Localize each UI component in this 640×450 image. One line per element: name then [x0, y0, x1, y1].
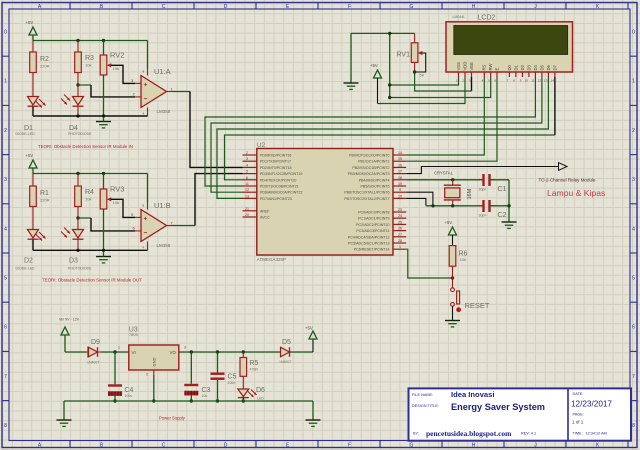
svg-text:PB5/SCK/PCINT5: PB5/SCK/PCINT5 — [361, 185, 390, 189]
svg-text:2: 2 — [4, 128, 7, 134]
svg-text:Power Supply: Power Supply — [159, 416, 186, 421]
svg-text:PC3/ADC3/PCINT11: PC3/ADC3/PCINT11 — [356, 229, 389, 233]
svg-text:LED: LED — [257, 397, 264, 401]
svg-text:VEE: VEE — [469, 62, 474, 71]
svg-text:G: G — [410, 4, 414, 10]
svg-text:RV2: RV2 — [110, 51, 124, 60]
svg-text:PB1/OC1A/PCINT1: PB1/OC1A/PCINT1 — [358, 160, 389, 164]
svg-text:D5: D5 — [282, 339, 291, 346]
svg-text:3: 3 — [184, 346, 186, 350]
svg-text:DESIGN TITLE:: DESIGN TITLE: — [412, 404, 439, 408]
svg-text:14: 14 — [398, 151, 402, 155]
svg-text:pencetusidea.blogspot.com: pencetusidea.blogspot.com — [426, 429, 512, 438]
svg-text:26: 26 — [398, 227, 402, 231]
svg-text:RESET: RESET — [465, 301, 490, 310]
svg-text:R1: R1 — [40, 190, 49, 197]
svg-text:+: + — [144, 82, 148, 89]
svg-text:DIODE-LED: DIODE-LED — [16, 132, 36, 136]
svg-text:D3: D3 — [526, 64, 531, 70]
svg-text:6: 6 — [133, 225, 136, 230]
svg-text:10k: 10k — [85, 197, 91, 202]
svg-text:30pF: 30pF — [479, 188, 487, 192]
svg-text:4: 4 — [246, 163, 248, 167]
svg-text:BY:: BY: — [413, 432, 419, 436]
svg-text:PHOTODIODE: PHOTODIODE — [68, 267, 92, 271]
svg-text:PC1/ADC1/PCINT9: PC1/ADC1/PCINT9 — [358, 217, 389, 221]
svg-text:GND: GND — [152, 358, 157, 367]
svg-text:D4: D4 — [69, 125, 78, 132]
svg-text:1N4007: 1N4007 — [87, 361, 99, 365]
svg-text:3: 3 — [4, 177, 7, 183]
svg-text:VDD: VDD — [462, 62, 467, 71]
svg-text:12/23/2017: 12/23/2017 — [571, 400, 612, 409]
svg-text:PD4/T0/XCK/PCINT20: PD4/T0/XCK/PCINT20 — [260, 178, 296, 182]
svg-text:+5V: +5V — [305, 326, 313, 331]
svg-text:G: G — [410, 442, 414, 448]
svg-text:11: 11 — [531, 79, 534, 83]
svg-text:6: 6 — [246, 176, 248, 180]
svg-text:1: 1 — [118, 346, 120, 350]
svg-text:REV: 4.1: REV: 4.1 — [521, 432, 536, 436]
svg-text:100n: 100n — [228, 381, 236, 385]
svg-text:D7: D7 — [552, 64, 557, 70]
svg-text:4: 4 — [143, 245, 145, 249]
svg-text:RS: RS — [482, 64, 487, 70]
svg-text:15: 15 — [398, 157, 402, 161]
svg-text:TEORI: Obstacle Detection Sen: TEORI: Obstacle Detection Sensor IR Modu… — [38, 144, 133, 149]
svg-text:PD5/T1/OC0B/PCINT21: PD5/T1/OC0B/PCINT21 — [260, 185, 299, 189]
svg-text:12:34:12 AM: 12:34:12 AM — [586, 432, 607, 436]
svg-text:D: D — [224, 4, 228, 10]
svg-text:PD3/INT1/OC2B/PCINT19: PD3/INT1/OC2B/PCINT19 — [260, 172, 302, 176]
svg-text:24: 24 — [398, 214, 402, 218]
svg-text:Idea Inovasi: Idea Inovasi — [451, 390, 494, 399]
svg-text:PC5/ADC5/SCL/PCINT13: PC5/ADC5/SCL/PCINT13 — [348, 242, 389, 246]
svg-text:C: C — [162, 442, 166, 448]
svg-text:VSS: VSS — [456, 62, 461, 71]
svg-text:DATE:: DATE: — [573, 392, 584, 396]
svg-text:19: 19 — [398, 182, 402, 186]
svg-text:18: 18 — [398, 176, 402, 180]
svg-text:PD7/AIN1/PCINT23: PD7/AIN1/PCINT23 — [260, 197, 292, 201]
svg-text:6: 6 — [494, 79, 496, 83]
svg-text:CRYSTAL: CRYSTAL — [434, 171, 454, 176]
svg-text:F: F — [348, 4, 351, 10]
svg-text:PB0/ICP1/CLKO/PCINT0: PB0/ICP1/CLKO/PCINT0 — [349, 154, 389, 158]
svg-text:20: 20 — [245, 213, 249, 217]
svg-text:7805: 7805 — [129, 332, 139, 337]
svg-text:F: F — [348, 442, 351, 448]
svg-text:13: 13 — [245, 194, 249, 198]
svg-text:4: 4 — [143, 111, 145, 115]
svg-text:PC4/ADC4/SDA/PCINT12: PC4/ADC4/SDA/PCINT12 — [348, 235, 390, 239]
svg-text:D9: D9 — [91, 339, 100, 346]
svg-text:LM358: LM358 — [157, 243, 171, 248]
svg-text:0: 0 — [4, 30, 7, 36]
svg-text:470R: 470R — [250, 368, 259, 372]
svg-text:13: 13 — [544, 79, 548, 83]
svg-text:3: 3 — [632, 177, 635, 183]
svg-text:+5V: +5V — [370, 63, 378, 68]
svg-text:3: 3 — [131, 78, 134, 83]
svg-text:7: 7 — [171, 221, 174, 226]
svg-text:0: 0 — [632, 30, 635, 36]
svg-text:Vin 9V - 12V: Vin 9V - 12V — [59, 318, 80, 322]
svg-text:D0: D0 — [507, 64, 512, 70]
svg-text:5: 5 — [131, 212, 134, 217]
svg-text:1: 1 — [456, 79, 458, 83]
svg-text:C1: C1 — [498, 186, 507, 193]
svg-text:D: D — [224, 442, 228, 448]
svg-text:6: 6 — [632, 325, 635, 331]
svg-text:28: 28 — [398, 239, 402, 243]
svg-text:PD0/RXD/PCINT16: PD0/RXD/PCINT16 — [260, 154, 291, 158]
svg-text:10: 10 — [398, 194, 402, 198]
svg-text:LM044L: LM044L — [453, 15, 466, 19]
svg-text:PD6/AIN0/OC0A/PCINT22: PD6/AIN0/OC0A/PCINT22 — [260, 191, 303, 195]
svg-text:+5V: +5V — [26, 153, 34, 158]
svg-text:PD2/INT0/PCINT18: PD2/INT0/PCINT18 — [260, 166, 292, 170]
svg-text:D6: D6 — [546, 64, 551, 70]
svg-text:D6: D6 — [256, 387, 265, 394]
svg-text:16M: 16M — [467, 188, 473, 199]
svg-text:1N4007: 1N4007 — [279, 360, 291, 364]
svg-text:4: 4 — [4, 226, 7, 232]
svg-text:AREF: AREF — [260, 209, 270, 213]
svg-text:+5V: +5V — [26, 20, 34, 25]
svg-text:1: 1 — [4, 79, 7, 85]
svg-text:D3: D3 — [69, 258, 78, 265]
svg-text:4: 4 — [482, 79, 484, 83]
svg-text:5: 5 — [488, 79, 490, 83]
svg-text:C2: C2 — [498, 212, 507, 219]
svg-text:10k: 10k — [460, 257, 466, 262]
svg-text:+: + — [144, 216, 148, 223]
svg-text:+5V: +5V — [445, 220, 453, 225]
svg-text:1: 1 — [632, 79, 635, 85]
svg-text:23: 23 — [398, 208, 402, 212]
svg-text:3: 3 — [469, 79, 471, 83]
svg-text:10u: 10u — [202, 394, 208, 398]
svg-text:Energy Saver System: Energy Saver System — [451, 402, 545, 412]
svg-text:H: H — [472, 442, 476, 448]
svg-text:D1: D1 — [513, 64, 518, 70]
svg-text:25: 25 — [398, 220, 402, 224]
svg-text:PB2/SS/OC1B/PCINT2: PB2/SS/OC1B/PCINT2 — [352, 166, 389, 170]
svg-text:12: 12 — [538, 79, 542, 83]
svg-text:2: 2 — [462, 79, 464, 83]
svg-text:R4: R4 — [85, 189, 94, 196]
svg-text:PB3/MOSI/OC2A/PCINT3: PB3/MOSI/OC2A/PCINT3 — [348, 172, 390, 176]
svg-text:9: 9 — [399, 188, 401, 192]
svg-text:100u: 100u — [125, 394, 133, 398]
svg-text:17: 17 — [398, 170, 402, 174]
svg-text:16: 16 — [398, 163, 402, 167]
svg-text:10k: 10k — [85, 63, 91, 68]
svg-text:DIODE-LED: DIODE-LED — [16, 267, 36, 271]
svg-text:2: 2 — [146, 373, 148, 377]
svg-text:R5: R5 — [250, 360, 259, 367]
svg-text:LM358: LM358 — [157, 109, 171, 114]
svg-text:PC2/ADC2/PCINT10: PC2/ADC2/PCINT10 — [356, 223, 389, 227]
svg-text:7: 7 — [507, 79, 509, 83]
svg-text:1: 1 — [171, 87, 174, 92]
svg-text:C4: C4 — [125, 387, 134, 394]
svg-text:LCD2: LCD2 — [478, 15, 496, 22]
svg-text:VI: VI — [132, 350, 136, 355]
svg-text:11: 11 — [245, 182, 249, 186]
svg-text:PB6/TOSC1/XTAL1/PCINT6: PB6/TOSC1/XTAL1/PCINT6 — [344, 191, 389, 195]
svg-text:U2: U2 — [257, 142, 266, 149]
svg-text:PB7/TOSC2/XTAL2/PCINT7: PB7/TOSC2/XTAL2/PCINT7 — [344, 197, 389, 201]
svg-text:ATMEGA328P: ATMEGA328P — [257, 257, 286, 262]
svg-text:TEORI: Obstacle Detection Sen: TEORI: Obstacle Detection Sensor IR Modu… — [42, 278, 142, 283]
svg-text:TIME:: TIME: — [573, 432, 583, 436]
svg-text:10: 10 — [525, 79, 529, 83]
svg-text:D1: D1 — [24, 125, 33, 132]
svg-text:6: 6 — [4, 325, 7, 331]
svg-text:−: − — [144, 96, 148, 103]
svg-text:U1:B: U1:B — [154, 201, 171, 210]
svg-text:8: 8 — [143, 70, 145, 74]
svg-text:D4: D4 — [533, 64, 538, 70]
svg-text:12: 12 — [245, 188, 249, 192]
svg-text:−: − — [144, 230, 148, 237]
svg-text:21: 21 — [245, 207, 249, 211]
svg-text:D2: D2 — [520, 64, 525, 70]
svg-text:AVCC: AVCC — [260, 216, 270, 220]
svg-text:1 of 1: 1 of 1 — [572, 420, 584, 425]
svg-text:7: 7 — [632, 374, 635, 380]
svg-text:PC6/RESET/PCINT14: PC6/RESET/PCINT14 — [354, 248, 390, 252]
svg-text:PD1/TXD/PCINT17: PD1/TXD/PCINT17 — [260, 160, 291, 164]
svg-text:RV1: RV1 — [397, 52, 411, 59]
svg-text:FILE NAME:: FILE NAME: — [412, 393, 433, 397]
svg-text:8: 8 — [4, 423, 7, 429]
svg-text:4: 4 — [632, 226, 635, 232]
svg-text:RV3: RV3 — [110, 185, 124, 194]
svg-text:TO 2-Channel Relay Module: TO 2-Channel Relay Module — [539, 177, 596, 182]
svg-text:27: 27 — [398, 233, 402, 237]
svg-text:VO: VO — [169, 350, 176, 355]
svg-text:R3: R3 — [85, 55, 94, 62]
svg-text:U1:A: U1:A — [154, 67, 171, 76]
svg-text:PB4/MISO/PCINT4: PB4/MISO/PCINT4 — [359, 178, 390, 182]
svg-text:3: 3 — [246, 157, 248, 161]
svg-text:PAGE:: PAGE: — [573, 413, 584, 417]
svg-text:5: 5 — [246, 170, 248, 174]
svg-text:2: 2 — [133, 91, 136, 96]
svg-text:Lampu & Kipas: Lampu & Kipas — [547, 188, 605, 198]
svg-text:D5: D5 — [539, 64, 544, 70]
svg-text:R2: R2 — [40, 56, 49, 63]
svg-text:1: 1 — [399, 245, 401, 249]
svg-text:14: 14 — [551, 79, 555, 83]
svg-text:C5: C5 — [228, 374, 237, 381]
svg-text:30pF: 30pF — [479, 214, 487, 218]
svg-text:7: 7 — [4, 374, 7, 380]
svg-text:8: 8 — [143, 204, 145, 208]
svg-text:9: 9 — [520, 79, 522, 83]
svg-text:E: E — [494, 68, 499, 71]
svg-text:C3: C3 — [202, 387, 211, 394]
svg-text:10k: 10k — [113, 200, 119, 205]
svg-text:PC0/ADC0/PCINT8: PC0/ADC0/PCINT8 — [358, 211, 389, 215]
svg-text:8: 8 — [632, 423, 635, 429]
svg-text:10k: 10k — [113, 66, 119, 71]
svg-text:D2: D2 — [24, 258, 33, 265]
svg-text:C: C — [162, 4, 166, 10]
svg-text:5: 5 — [632, 276, 635, 282]
svg-text:5: 5 — [4, 276, 7, 282]
svg-text:8: 8 — [513, 79, 515, 83]
svg-text:PHOTODIODE: PHOTODIODE — [68, 132, 92, 136]
svg-text:H: H — [472, 4, 476, 10]
svg-text:2: 2 — [246, 151, 248, 155]
svg-text:220R: 220R — [40, 198, 50, 203]
svg-text:5K: 5K — [420, 73, 425, 78]
svg-text:2: 2 — [632, 128, 635, 134]
svg-text:220R: 220R — [40, 64, 50, 69]
svg-text:RW: RW — [488, 64, 493, 71]
